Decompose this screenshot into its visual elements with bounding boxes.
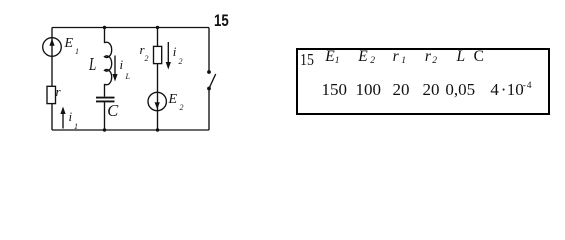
node top-r2 junction: [156, 26, 159, 29]
resistor r: [47, 86, 56, 103]
label E2: [169, 92, 178, 108]
label i2: [173, 44, 177, 60]
table row 1: variant and symbols: [300, 50, 314, 70]
parameter table box: [296, 48, 550, 115]
switch S: [207, 70, 211, 74]
resistor r2: [154, 46, 162, 63]
circuit schematic: [0, 0, 565, 161]
label E1: [65, 36, 74, 52]
node bottom-E2 junction: [156, 128, 159, 131]
label i1: [69, 109, 73, 125]
label r: [56, 84, 61, 100]
label C: [107, 101, 118, 121]
node top-L junction: [103, 26, 106, 29]
node label 15 (variant number): [214, 12, 229, 31]
inductor L: [105, 42, 112, 85]
source E2: [148, 92, 166, 110]
source E1: [43, 38, 62, 57]
wire left branch: [51, 28, 53, 87]
wire bottom rail: [52, 129, 209, 131]
wire right branch: [208, 28, 210, 72]
label L: [89, 54, 96, 75]
wire top rail: [52, 27, 209, 29]
wire middle branch: [104, 28, 106, 44]
current arrow iL: [114, 56, 116, 77]
label iL: [120, 57, 124, 73]
current arrow i1: [62, 112, 64, 129]
capacitor C: [96, 97, 115, 99]
wire r2 branch: [157, 28, 159, 47]
label r2: [140, 42, 145, 58]
table row 2: values: [322, 80, 348, 100]
node bottom-L junction: [103, 128, 106, 131]
current arrow i2: [167, 42, 169, 64]
